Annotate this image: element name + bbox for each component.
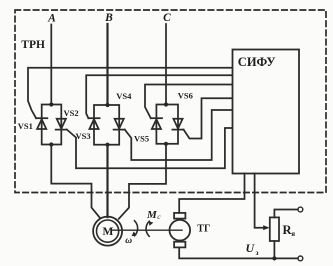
wire VS6 gate to SIFU xyxy=(184,98,233,138)
resistor R xyxy=(270,217,279,241)
tacho brush bottom xyxy=(174,242,185,248)
terminal top circle xyxy=(298,207,303,212)
node box3 top junction xyxy=(164,102,168,106)
thyristor pair box 2 xyxy=(94,105,119,145)
svg-text:М: М xyxy=(102,226,113,238)
load torque arrow Mc xyxy=(146,221,149,236)
thyristor VS3 xyxy=(88,118,99,129)
wire phase B output to motor xyxy=(106,145,108,217)
motor M outer circle xyxy=(93,217,122,246)
thyristor VS5 xyxy=(151,118,162,129)
TRN enclosure dashed border xyxy=(15,10,326,193)
shaft wire motor to tacho xyxy=(113,229,183,231)
wire VS5 gate to SIFU xyxy=(145,85,233,119)
svg-text:ТРН: ТРН xyxy=(21,39,45,51)
rotation arrow omega xyxy=(135,221,138,236)
node box2 top junction xyxy=(105,103,109,107)
wire VS1 gate to SIFU xyxy=(28,68,233,118)
node box3 bottom junction xyxy=(164,142,168,146)
thyristor VS1 xyxy=(36,118,47,129)
svg-text:VS2: VS2 xyxy=(64,108,79,118)
wire VS3 gate to SIFU xyxy=(86,75,232,118)
wire phase B input xyxy=(106,24,108,105)
svg-text:VS4: VS4 xyxy=(116,91,132,101)
tachogenerator TG circle xyxy=(170,220,191,241)
wire phase A input xyxy=(50,25,52,105)
svg-text:B: B xyxy=(104,12,113,24)
svg-text:U: U xyxy=(246,241,256,255)
wire phase A output to motor xyxy=(51,145,100,218)
svg-text:я: я xyxy=(291,230,295,238)
svg-text:VS6: VS6 xyxy=(178,91,193,101)
node box2 bottom junction xyxy=(105,143,109,147)
svg-text:з: з xyxy=(256,248,259,257)
wire phase C input xyxy=(165,24,167,105)
wire VS4 gate to SIFU xyxy=(125,110,233,160)
svg-text:ω: ω xyxy=(125,236,132,246)
block SIFU xyxy=(233,50,300,174)
wire resistor bottom xyxy=(273,241,275,258)
svg-text:C: C xyxy=(163,12,171,24)
svg-text:M: M xyxy=(146,209,158,221)
svg-text:VS3: VS3 xyxy=(76,131,91,141)
wire phase C output to motor xyxy=(119,144,166,219)
thyristor pair box 1 xyxy=(42,105,62,145)
thyristor pair box 3 xyxy=(156,105,178,144)
node resistor bottom junction xyxy=(272,256,276,260)
tacho brush top xyxy=(174,213,185,219)
thyristor VS2 xyxy=(56,119,67,130)
svg-text:A: A xyxy=(47,13,56,25)
wire tacho bottom to common bus xyxy=(179,247,298,258)
svg-text:ТГ: ТГ xyxy=(197,224,210,235)
thyristor VS4 xyxy=(114,119,125,130)
wire tacho output to SIFU xyxy=(179,174,244,213)
thyristor VS6 xyxy=(172,119,183,130)
svg-text:СИФУ: СИФУ xyxy=(238,55,276,69)
svg-text:VS1: VS1 xyxy=(18,121,33,131)
svg-text:VS5: VS5 xyxy=(134,134,149,144)
terminal bottom circle xyxy=(298,256,303,261)
wire SIFU control input with wiper arrow xyxy=(255,174,264,228)
wire resistor top to terminal xyxy=(274,210,297,218)
wire VS2 gate to SIFU xyxy=(67,128,233,168)
node box1 top junction xyxy=(49,102,53,106)
node box1 bottom junction xyxy=(49,142,53,146)
motor M inner circle xyxy=(97,220,119,242)
